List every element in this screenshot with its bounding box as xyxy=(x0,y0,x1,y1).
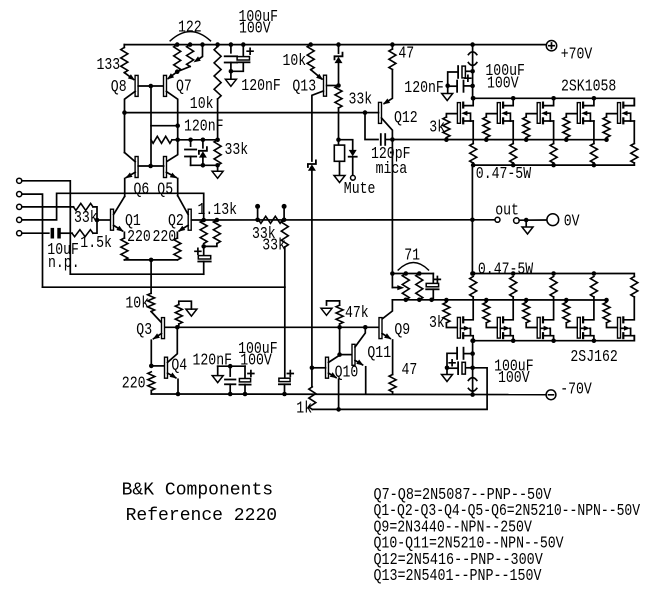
transistor Q11 xyxy=(352,344,355,365)
node output bus M8 2SJ162 xyxy=(551,271,556,276)
svg-text:Reference 2220: Reference 2220 xyxy=(126,505,278,526)
resistor 47k xyxy=(336,305,343,324)
wire source M3 2SK1058 xyxy=(553,121,555,144)
resistor 1.13k b xyxy=(213,220,220,244)
node Q4E bus1 xyxy=(176,392,181,397)
node out gnd xyxy=(524,218,529,223)
node rail 10kQ13 xyxy=(308,42,313,47)
source resistor 0.47 M10 2SJ162 xyxy=(631,277,638,298)
ground Q3 base xyxy=(186,309,197,316)
resistor 10k Q13 xyxy=(307,45,314,70)
svg-text:Q12: Q12 xyxy=(394,109,418,128)
wire Q10 base xyxy=(312,367,326,369)
wire input 2 xyxy=(22,194,43,287)
wire Q2 emitter xyxy=(179,225,188,231)
node fb 284 xyxy=(282,218,287,223)
wire RC bottom xyxy=(191,164,218,166)
node 47k base xyxy=(337,325,342,330)
node RC 202 top xyxy=(201,138,206,143)
capacitor 120nF top xyxy=(230,45,232,53)
svg-text:0.47-5W: 0.47-5W xyxy=(478,260,534,279)
node Q3 base xyxy=(175,325,180,330)
wire out stub xyxy=(472,219,494,221)
node rail 10k xyxy=(215,42,220,47)
node fuse bus1 xyxy=(470,392,475,397)
wire Q6 collector xyxy=(125,153,136,162)
capacitor 120nF mid xyxy=(190,140,192,146)
plus 100uF top xyxy=(247,48,253,54)
svg-text:10k: 10k xyxy=(190,95,214,114)
mosfet M5 2SK1058 xyxy=(618,103,621,124)
node Q12C bias xyxy=(390,137,395,142)
terminal input 3 xyxy=(17,204,22,209)
svg-text:n.p.: n.p. xyxy=(48,254,80,273)
ground out xyxy=(525,220,527,227)
gate resistor 3k M2 2SK1058 xyxy=(484,137,489,142)
svg-text:Q5: Q5 xyxy=(157,180,173,199)
wire input 1 xyxy=(22,181,71,274)
wire driver base line xyxy=(165,326,379,328)
svg-text:Q11: Q11 xyxy=(367,344,391,363)
mosfet M6 2SJ162 xyxy=(457,317,460,338)
node Q10 base xyxy=(310,366,315,371)
svg-text:133: 133 xyxy=(97,56,121,75)
resistor 10k VAS xyxy=(217,45,219,47)
arc 122 xyxy=(170,32,210,41)
plus trim cap xyxy=(435,277,441,283)
gate resistor 3k M7 2SJ162 xyxy=(484,298,489,303)
wire drain bus lower xyxy=(473,336,635,341)
node drain bus M3 2SK1058 xyxy=(551,96,556,101)
svg-text:mica: mica xyxy=(376,160,408,179)
svg-text:100V: 100V xyxy=(239,20,271,39)
source resistor 0.47 M9 2SJ162 xyxy=(590,277,597,298)
wire Q8-Q7 base link xyxy=(138,85,163,87)
svg-text:3k: 3k xyxy=(429,119,445,138)
wire Q13 base xyxy=(327,85,339,87)
wire bus2 xyxy=(312,368,487,410)
wiper 71 xyxy=(391,274,393,288)
mosfet M10 2SJ162 xyxy=(618,317,621,338)
ground caps right top xyxy=(447,86,449,94)
node Q7C junction xyxy=(175,123,180,128)
svg-text:122: 122 xyxy=(178,18,202,37)
node Q12 base xyxy=(363,110,368,115)
capacitor fb elec xyxy=(284,287,286,379)
node rail 122a xyxy=(175,42,180,47)
transistor Q1 xyxy=(111,209,114,230)
node RC 177 xyxy=(175,138,180,143)
resistor 220 Q4 xyxy=(148,372,155,391)
node rail 47 xyxy=(390,42,395,47)
transistor Q5 xyxy=(164,157,167,178)
node RC 190 top xyxy=(188,138,193,143)
resistor 1.5k xyxy=(61,232,72,234)
wire Q1 emitter xyxy=(114,225,123,231)
node gnd right top xyxy=(445,83,450,88)
wire Q1 base xyxy=(97,219,111,221)
svg-text:100V: 100V xyxy=(498,369,530,388)
node tail xyxy=(149,258,154,263)
node output bus M6 2SJ162 xyxy=(471,271,476,276)
svg-text:2SK1058: 2SK1058 xyxy=(561,78,616,97)
node Q8 collector rail xyxy=(122,110,127,115)
ground mute xyxy=(339,161,341,175)
node trim r1 bot xyxy=(404,298,409,303)
resistor 47 top xyxy=(391,45,393,49)
gate resistor 3k M3 2SK1058 xyxy=(524,137,529,142)
node 100uF right bot xyxy=(470,366,475,371)
wire Q9 emitter xyxy=(382,334,390,339)
wire fuse to bus1 xyxy=(472,378,474,395)
svg-text:10k: 10k xyxy=(125,295,149,314)
wire lower bias line xyxy=(392,299,606,301)
mosfet M9 2SJ162 xyxy=(577,317,580,338)
svg-text:2SJ162: 2SJ162 xyxy=(570,348,617,367)
wire output bus lower xyxy=(472,274,634,277)
mosfet M2 2SK1058 xyxy=(497,103,500,124)
svg-text:+70V: +70V xyxy=(561,46,593,65)
terminal out b xyxy=(514,218,520,224)
resistor Q3 base xyxy=(175,305,182,325)
gate resistor 3k M4 2SK1058 xyxy=(564,137,569,142)
wire Q11 emitter xyxy=(355,360,363,365)
mute box xyxy=(338,140,340,145)
node trim left xyxy=(390,271,395,276)
ground caps right bot xyxy=(446,368,448,375)
svg-text:220: 220 xyxy=(122,375,146,394)
svg-text:Q13: Q13 xyxy=(292,77,316,96)
svg-text:47: 47 xyxy=(398,45,414,64)
node cap120 junction xyxy=(228,364,233,369)
gate resistor 3k M5 2SK1058 xyxy=(604,137,609,142)
wire Q11 collector xyxy=(355,327,365,347)
transistor Q8 xyxy=(135,75,138,96)
node 122 bottom xyxy=(175,69,180,74)
node caps top junction xyxy=(229,69,234,74)
wire source M4 2SK1058 xyxy=(593,121,595,144)
wire Q3 emitter xyxy=(154,334,162,339)
wire Q1 collector xyxy=(114,196,125,214)
diode mute xyxy=(349,150,357,156)
source resistor 0.47 M8 2SJ162 xyxy=(550,277,557,298)
node 1.13k bottom xyxy=(201,244,206,249)
wire trim top line xyxy=(392,273,433,275)
gate resistor 3k M9 2SJ162 xyxy=(564,298,569,303)
capacitor 100uF right bot xyxy=(465,367,473,369)
svg-text:100V: 100V xyxy=(240,351,272,370)
node trim cap bot xyxy=(429,298,434,303)
resistor 33k fb v xyxy=(281,220,288,247)
svg-text:Mute: Mute xyxy=(344,180,376,199)
node output bus M9 2SJ162 xyxy=(592,271,597,276)
source resistor 0.47 M1 2SK1058 xyxy=(470,144,477,164)
wire input 5 xyxy=(22,232,49,234)
terminal input 1 xyxy=(17,178,22,183)
node output bus M2 2SK1058 xyxy=(511,163,516,168)
transistor Q7 xyxy=(164,75,167,96)
zener Q13 collector xyxy=(308,160,316,167)
svg-text:Q7: Q7 xyxy=(176,78,192,97)
source resistor 0.47 M3 2SK1058 xyxy=(550,144,557,164)
resistor 10k Q3 xyxy=(148,293,155,311)
wire 120pF left xyxy=(365,113,378,140)
wire Q4 emitter xyxy=(168,373,176,378)
wire return upper xyxy=(70,273,203,275)
svg-text:120nF: 120nF xyxy=(241,77,280,96)
wire Q12 collector down xyxy=(391,140,393,274)
svg-text:1k: 1k xyxy=(296,400,312,419)
svg-text:47k: 47k xyxy=(345,304,369,323)
node output bus M3 2SK1058 xyxy=(551,163,556,168)
ground caps bl xyxy=(217,366,219,375)
wire Q5 emitter xyxy=(166,172,176,177)
svg-text:0.47-5W: 0.47-5W xyxy=(476,165,532,184)
plus 100uF right bot xyxy=(449,360,455,366)
svg-text:220: 220 xyxy=(153,228,177,247)
node rail 120nF xyxy=(229,42,234,47)
terminal input 5 xyxy=(17,231,22,236)
terminal mute xyxy=(352,157,354,176)
mosfet M8 2SJ162 xyxy=(537,317,540,338)
node RC 217 bot xyxy=(215,163,220,168)
wire source M2 2SK1058 xyxy=(512,121,514,144)
capacitor 120nF right bot xyxy=(465,353,473,355)
wire tail down xyxy=(150,260,152,293)
wire 47 to Q12 emitter xyxy=(384,70,392,104)
node out xyxy=(470,218,475,223)
gate resistor 3k M8 2SJ162 xyxy=(524,298,529,303)
capacitor 100uF top xyxy=(242,45,244,57)
resistor 33k input xyxy=(74,203,94,210)
svg-text:100V: 100V xyxy=(487,75,519,94)
resistor trim a xyxy=(402,274,409,300)
capacitor 10uF np xyxy=(51,228,55,239)
terminal input 2 xyxy=(17,192,22,197)
resistor 1.13k a xyxy=(200,220,207,244)
resistor 33k Q13 xyxy=(335,86,342,109)
svg-text:10k: 10k xyxy=(283,52,307,71)
transistor Q4 xyxy=(165,357,168,378)
wire Q10 collector xyxy=(329,355,340,363)
node rail 122b xyxy=(188,42,193,47)
node trim r2 top xyxy=(417,271,422,276)
mosfet M4 2SK1058 xyxy=(577,103,580,124)
gate resistor 3k M6 2SJ162 xyxy=(444,298,449,303)
node drain bus M6 2SJ162 xyxy=(471,338,476,343)
wire Q12 base xyxy=(365,112,379,114)
source resistor 0.47 M4 2SK1058 xyxy=(590,144,597,164)
transistor Q3 xyxy=(162,318,165,339)
svg-text:Q4: Q4 xyxy=(171,356,187,375)
node drain bus M2 2SK1058 xyxy=(511,96,516,101)
wire Q4 base xyxy=(151,365,164,367)
wire Q12 collector xyxy=(382,118,393,140)
terminal +70V xyxy=(546,41,556,51)
svg-text:120nF: 120nF xyxy=(184,117,224,136)
svg-text:1.13k: 1.13k xyxy=(198,201,238,220)
wire Q7 emitter xyxy=(168,72,177,79)
zener D mid xyxy=(202,140,204,148)
wire Q6 emitter xyxy=(126,172,135,177)
gate resistor 3k M10 2SJ162 xyxy=(604,298,609,303)
node drain bus M8 2SJ162 xyxy=(551,338,556,343)
zener Q13 base xyxy=(338,45,340,54)
capacitor trim xyxy=(432,274,434,284)
wire mute diode branch xyxy=(339,140,353,150)
plus 100uF right top xyxy=(465,75,471,81)
node drain bus lower start xyxy=(470,338,475,343)
svg-text:120nF: 120nF xyxy=(404,79,444,98)
node rail 100uF xyxy=(241,42,246,47)
capacitor 120nF bl xyxy=(229,366,231,376)
wire Q7 collector xyxy=(166,91,177,161)
terminal 0V xyxy=(547,214,559,226)
capacitor 100uF right top xyxy=(465,70,473,72)
wire output bus upper xyxy=(473,164,634,166)
node output bus M4 2SK1058 xyxy=(592,163,597,168)
node fb elec bus xyxy=(282,392,287,397)
node 100uF right top xyxy=(470,69,475,74)
wire mid rail xyxy=(125,112,366,114)
node output bus M7 2SJ162 xyxy=(511,271,516,276)
node Q6Q5 base xyxy=(148,164,153,169)
capacitor 120nF right top xyxy=(465,85,473,87)
transistor Q13 xyxy=(324,75,327,96)
transistor Q10 xyxy=(326,357,329,378)
node fb 217 xyxy=(215,218,220,223)
wiper arrow 122 xyxy=(198,45,202,60)
svg-text:Q13=2N5401--PNP--150V: Q13=2N5401--PNP--150V xyxy=(374,566,542,585)
source resistor 0.47 M6 2SJ162 xyxy=(470,277,477,298)
node 120nF right top xyxy=(470,84,475,89)
wire 47k to Q11 base xyxy=(339,327,341,354)
terminal ball b xyxy=(283,209,285,220)
wire out to 0V xyxy=(519,219,547,221)
wire 10k to Q13 emitter xyxy=(311,70,322,79)
wire cap cluster top xyxy=(218,365,245,367)
svg-text:B&K Components: B&K Components xyxy=(122,480,274,501)
wire base column xyxy=(150,86,152,166)
wire Q13 collector xyxy=(312,91,324,161)
gate resistor 3k M1 2SK1058 xyxy=(444,137,449,142)
node Q10E bus2 xyxy=(336,407,341,412)
capacitor 10uF fb xyxy=(203,246,205,255)
wire +70V top rail xyxy=(124,44,546,46)
node 120nF right bot xyxy=(470,351,475,356)
fuse link bottom xyxy=(468,378,476,381)
node fb 203 xyxy=(201,218,206,223)
node drain bus start xyxy=(471,96,476,101)
wire -70V bus xyxy=(151,393,546,396)
wire Q11 base xyxy=(340,354,352,356)
mosfet M3 2SK1058 xyxy=(537,103,540,124)
wire Q4 collector xyxy=(168,327,178,362)
resistor trim b xyxy=(416,274,423,300)
node trim r1 top xyxy=(404,271,409,276)
wire 133 to Q8 emitter xyxy=(124,73,133,80)
wire branch 125 xyxy=(151,125,178,127)
wire upper bias line xyxy=(392,139,606,141)
resistor 47 Q9 xyxy=(389,375,396,393)
svg-text:220: 220 xyxy=(127,228,151,247)
svg-text:Q6: Q6 xyxy=(134,180,150,199)
wire Q6-Q5 base link xyxy=(138,165,163,167)
source resistor 0.47 M5 2SK1058 xyxy=(631,144,638,164)
ground 47k xyxy=(321,308,332,315)
svg-text:Q3: Q3 xyxy=(136,321,152,340)
resistor 122 fixed xyxy=(174,45,181,72)
source resistor 0.47 M2 2SK1058 xyxy=(510,144,517,164)
svg-text:47: 47 xyxy=(402,361,418,380)
wire 10k to Q3 collector xyxy=(151,312,161,323)
wire mute drop xyxy=(338,113,340,140)
wire input 3 xyxy=(22,206,74,208)
svg-text:33k: 33k xyxy=(349,90,373,109)
fuse link top xyxy=(468,52,476,55)
plus fb cap xyxy=(195,248,201,254)
node drain bus M7 2SJ162 xyxy=(511,338,516,343)
transistor Q6 xyxy=(135,157,138,178)
svg-text:1.5k: 1.5k xyxy=(80,234,112,253)
node 120nF bl bus xyxy=(228,392,233,397)
node output bus M1 2SK1058 xyxy=(471,163,476,168)
node RC 217 top xyxy=(215,138,220,143)
wire output vertical xyxy=(471,165,473,273)
node mute xyxy=(336,137,341,142)
svg-text:120nF: 120nF xyxy=(193,351,233,370)
resistor 33k mid xyxy=(214,140,221,166)
capacitor 120pF xyxy=(380,134,382,145)
node drain bus M9 2SJ162 xyxy=(592,338,597,343)
resistor 133 xyxy=(123,45,125,48)
node trim r2 bot xyxy=(417,298,422,303)
resistor 33k fb h xyxy=(259,216,283,223)
node Q11C xyxy=(363,325,368,330)
source resistor 0.47 M7 2SJ162 xyxy=(510,277,517,298)
terminal -70V xyxy=(546,390,556,400)
node rail zener xyxy=(336,42,341,47)
node Q1 base xyxy=(95,218,100,223)
svg-text:0V: 0V xyxy=(564,212,580,231)
transistor Q12 xyxy=(379,102,382,123)
transistor Q9 xyxy=(379,318,382,339)
wire drain bus upper xyxy=(473,98,634,105)
plus 100uF bl xyxy=(248,371,254,377)
terminal ball a xyxy=(257,209,259,220)
node Q13 base xyxy=(336,83,341,88)
mosfet M7 2SJ162 xyxy=(497,317,500,338)
node RC 202 bot xyxy=(201,163,206,168)
arc 71 xyxy=(398,263,428,271)
wire trim to Q9 xyxy=(382,300,392,319)
node drain bus M1 2SK1058 xyxy=(471,96,476,101)
plus fb elec xyxy=(287,371,293,377)
node Q8Q7 base xyxy=(149,84,154,89)
wire Q13 col lower xyxy=(311,170,313,367)
svg-text:Q9: Q9 xyxy=(394,321,410,340)
svg-text:Q8: Q8 xyxy=(111,78,127,97)
svg-text:33k: 33k xyxy=(225,141,249,160)
wire Q10 emitter xyxy=(329,373,337,378)
node 100uF bl bus xyxy=(243,392,248,397)
ground caps top xyxy=(230,71,232,79)
mosfet M1 2SK1058 xyxy=(457,103,460,124)
wire return lower xyxy=(43,286,285,288)
node drain bus M4 2SK1058 xyxy=(592,96,597,101)
node fb 257 xyxy=(255,218,260,223)
wire feedback line xyxy=(191,219,472,221)
